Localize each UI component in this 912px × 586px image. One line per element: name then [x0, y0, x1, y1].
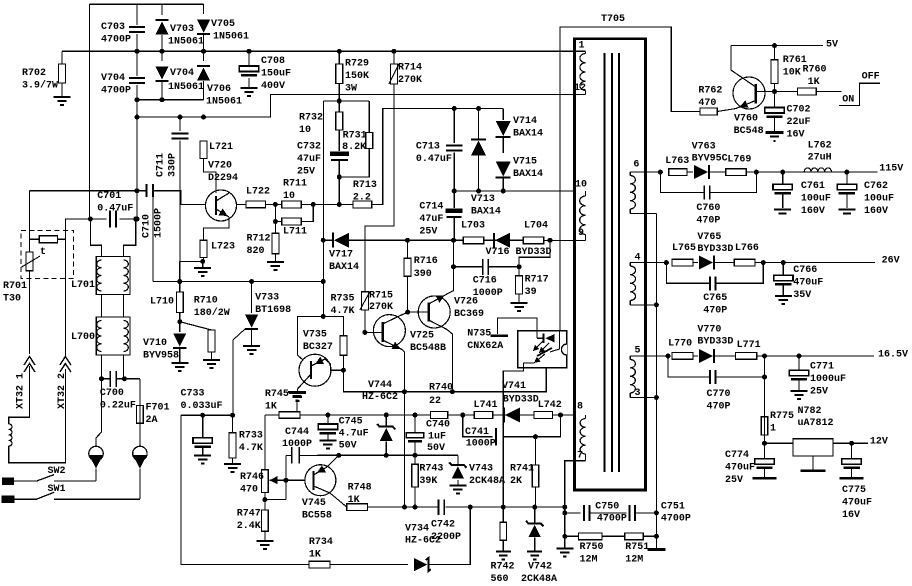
ground R747	[256, 541, 273, 549]
svg-text:8: 8	[577, 402, 583, 413]
svg-text:160V: 160V	[801, 206, 825, 217]
svg-text:27uH: 27uH	[808, 153, 832, 164]
wire 26V rail	[755, 262, 875, 264]
zener V743	[457, 455, 459, 464]
ground R733	[224, 464, 241, 472]
node C711 tap	[135, 115, 140, 120]
svg-text:1uF: 1uF	[428, 432, 446, 443]
svg-text:2CK48A: 2CK48A	[521, 574, 557, 585]
svg-text:BYV958: BYV958	[143, 351, 179, 362]
resistor R745	[279, 412, 300, 419]
svg-text:3W: 3W	[345, 84, 357, 95]
capacitor C733	[202, 415, 204, 438]
svg-text:V720: V720	[208, 161, 232, 172]
wire top bus	[90, 3, 204, 5]
svg-text:BYV95C: BYV95C	[692, 154, 728, 165]
wire V745 base	[286, 479, 305, 481]
zener V734	[414, 558, 427, 571]
capacitor C710	[137, 190, 146, 192]
svg-text:470P: 470P	[707, 402, 731, 413]
capacitor C775	[851, 443, 853, 458]
svg-text:820: 820	[247, 246, 265, 257]
svg-text:470uF: 470uF	[842, 498, 872, 509]
svg-text:1: 1	[770, 424, 776, 435]
svg-text:C742: C742	[431, 520, 455, 531]
svg-text:C745: C745	[339, 417, 363, 428]
resistor R775	[764, 356, 766, 417]
inductor L763	[669, 169, 687, 176]
svg-text:V717: V717	[329, 250, 353, 261]
capacitor C703	[136, 4, 138, 25]
svg-text:0.22uF: 0.22uF	[100, 401, 136, 412]
wire rail x=137 lower	[136, 100, 138, 219]
svg-text:L762: L762	[808, 141, 832, 152]
capacitor C761	[782, 172, 784, 184]
resistor R734	[309, 561, 330, 568]
svg-text:C760: C760	[696, 203, 720, 214]
wire 5V rail	[731, 45, 823, 47]
svg-text:8.2K: 8.2K	[342, 142, 366, 153]
svg-text:0.033uF: 0.033uF	[181, 401, 223, 412]
inductor L769	[726, 169, 747, 176]
svg-text:C741: C741	[465, 427, 489, 438]
optocoupler N735 box	[518, 331, 567, 368]
svg-text:V741: V741	[502, 381, 526, 392]
svg-text:C700: C700	[100, 388, 124, 399]
svg-text:1N5061: 1N5061	[168, 37, 204, 48]
svg-text:T30: T30	[3, 294, 21, 305]
diode V713	[478, 109, 480, 141]
svg-text:2CK48A: 2CK48A	[469, 476, 505, 487]
svg-text:4700P: 4700P	[101, 86, 131, 97]
resistor R750	[565, 535, 579, 537]
capacitor C716	[483, 259, 489, 275]
node pin4	[664, 260, 669, 265]
inductor L710	[179, 261, 181, 292]
svg-text:C703: C703	[101, 22, 125, 33]
svg-text:47uF: 47uF	[297, 154, 321, 165]
svg-text:R746: R746	[240, 472, 264, 483]
optocoupler N735 light arrows	[533, 341, 543, 351]
ground R717	[511, 303, 528, 311]
wire R714 to R715	[365, 84, 394, 292]
svg-text:1: 1	[579, 41, 585, 52]
wire V725 base	[365, 331, 383, 333]
transformer L701	[96, 257, 130, 295]
ground C774	[753, 477, 777, 480]
transistor V760	[733, 77, 765, 109]
svg-text:16.5V: 16.5V	[878, 350, 908, 361]
svg-text:560: 560	[491, 574, 509, 585]
svg-text:T705: T705	[601, 14, 625, 25]
thyristor V733	[251, 282, 253, 314]
svg-text:V716 BYD33D: V716 BYD33D	[486, 247, 552, 258]
svg-text:V760: V760	[734, 114, 758, 125]
svg-text:12V: 12V	[870, 437, 888, 448]
wire V760 base node	[756, 91, 798, 93]
svg-text:150K: 150K	[345, 71, 369, 82]
svg-text:1000uF: 1000uF	[810, 374, 846, 385]
svg-text:2.2: 2.2	[353, 193, 371, 204]
wire C701 to L701 left	[90, 219, 101, 258]
svg-text:12: 12	[574, 83, 586, 94]
svg-text:C740: C740	[426, 420, 450, 431]
svg-text:BT1698: BT1698	[255, 305, 291, 316]
capacitor C741	[463, 415, 493, 437]
diode V705	[203, 4, 205, 14]
svg-text:BYD33D: BYD33D	[697, 244, 733, 255]
wire emitter rail y=391.7	[343, 368, 546, 392]
svg-text:uA7812: uA7812	[798, 418, 834, 429]
capacitor C745	[327, 415, 329, 424]
wire V725 emitter down	[402, 350, 405, 392]
svg-text:25V: 25V	[810, 387, 828, 398]
svg-text:R751: R751	[625, 542, 649, 553]
svg-text:160V: 160V	[864, 206, 888, 217]
transformer L700	[96, 317, 130, 355]
capacitor C708	[247, 49, 252, 54]
capacitor C740	[414, 415, 416, 433]
diode V716	[495, 233, 510, 248]
svg-text:50V: 50V	[427, 443, 445, 454]
ground pin7	[564, 536, 566, 547]
capacitor C774	[764, 443, 766, 458]
svg-text:470P: 470P	[703, 306, 727, 317]
wire B+ bus y=51.3	[62, 50, 586, 52]
svg-text:V743: V743	[469, 464, 493, 475]
svg-text:L723: L723	[211, 242, 235, 253]
zener V744	[385, 415, 387, 427]
svg-text:C766: C766	[793, 265, 817, 276]
inductor L741	[474, 412, 493, 419]
wire N735 emitter to R742 node	[503, 368, 523, 507]
chassis bar secondary	[655, 536, 657, 548]
resistor R731	[368, 101, 370, 133]
wire 115V rail	[746, 171, 877, 173]
wire 12V out	[833, 442, 868, 444]
diode V715	[496, 162, 511, 177]
resistor R748	[347, 504, 368, 511]
wire V735 base	[297, 316, 323, 360]
diode V717	[334, 233, 349, 248]
wire V726 base	[408, 311, 429, 313]
svg-text:ON: ON	[842, 95, 854, 106]
ground L723	[194, 268, 211, 276]
resistor R729	[338, 51, 340, 64]
svg-text:C751: C751	[661, 502, 685, 513]
svg-text:BC548: BC548	[734, 126, 764, 137]
svg-text:CNX62A: CNX62A	[467, 341, 503, 352]
wire V720 base	[153, 191, 206, 205]
svg-text:R741: R741	[510, 464, 534, 475]
node pin6	[658, 170, 663, 175]
svg-text:1N5061: 1N5061	[213, 32, 249, 43]
ground V743	[449, 485, 466, 493]
svg-text:L741: L741	[474, 400, 498, 411]
svg-text:L742: L742	[538, 400, 562, 411]
svg-text:R762: R762	[698, 86, 722, 97]
transformer T705 body	[575, 39, 646, 490]
svg-text:V713: V713	[471, 194, 495, 205]
svg-text:BAX14: BAX14	[329, 262, 359, 273]
svg-text:3: 3	[635, 388, 641, 399]
svg-text:270K: 270K	[398, 75, 422, 86]
resistor R715	[361, 292, 368, 310]
svg-text:BYD33D: BYD33D	[697, 337, 733, 348]
wire y=204.4 row	[313, 203, 353, 205]
svg-text:50V: 50V	[339, 441, 357, 452]
capacitor C701	[90, 218, 106, 220]
resistor R712	[273, 219, 278, 224]
inductor L762	[804, 168, 831, 172]
ground C745	[319, 441, 336, 449]
inductor L721	[200, 141, 207, 159]
diode V763	[687, 171, 693, 173]
svg-text:16V: 16V	[842, 510, 860, 521]
wire to arrestors	[96, 379, 102, 446]
svg-text:SW2: SW2	[48, 466, 66, 477]
wire pin7 out	[565, 461, 586, 543]
wire V735 emitter to R735	[325, 359, 343, 370]
svg-text:C771: C771	[810, 362, 834, 373]
resistor R732	[338, 101, 340, 112]
wire AC rail x=90	[89, 4, 91, 219]
wire V717 bus y=240.2	[323, 239, 334, 241]
svg-text:10: 10	[575, 180, 587, 191]
transistor V745	[305, 465, 336, 496]
svg-text:BC548B: BC548B	[410, 343, 446, 354]
resistor R760	[797, 88, 816, 95]
svg-text:R733: R733	[239, 431, 263, 442]
svg-text:L701: L701	[71, 280, 95, 291]
wire L701-L700	[101, 295, 103, 318]
svg-text:C750: C750	[595, 502, 619, 513]
wire V726 collector down	[447, 330, 452, 392]
ground C702	[766, 131, 784, 134]
resistor R751	[625, 533, 643, 540]
svg-text:R775: R775	[770, 411, 794, 422]
svg-text:R747: R747	[237, 509, 261, 520]
svg-text:5V: 5V	[826, 40, 838, 51]
svg-text:BC327: BC327	[303, 342, 333, 353]
svg-text:22uF: 22uF	[787, 117, 811, 128]
capacitor C765 bypass	[666, 263, 709, 284]
resistor R702	[61, 51, 63, 64]
svg-text:BC558: BC558	[302, 511, 332, 522]
svg-text:D2294: D2294	[208, 173, 238, 184]
svg-text:L721: L721	[209, 142, 233, 153]
svg-text:0.47uF: 0.47uF	[416, 154, 452, 165]
svg-text:R729: R729	[345, 59, 369, 70]
diode V703	[161, 4, 163, 15]
wire C716 branch	[519, 240, 550, 266]
svg-text:R742: R742	[491, 562, 515, 573]
svg-text:BAX14: BAX14	[471, 207, 501, 218]
wire V725 emitter leg down	[404, 392, 406, 507]
resistor R761	[774, 46, 776, 60]
winding pins 1-12	[585, 51, 587, 53]
capacitor C771	[798, 356, 800, 370]
wire y=455.3 row	[339, 454, 458, 456]
svg-text:V715: V715	[513, 157, 537, 168]
switch SW1	[2, 496, 15, 504]
resistor R741	[535, 437, 537, 465]
svg-text:25V: 25V	[725, 475, 743, 486]
wire pin7 node	[562, 505, 567, 510]
transistor V726	[418, 296, 450, 328]
svg-text:L763: L763	[665, 156, 689, 167]
svg-text:25V: 25V	[419, 227, 437, 238]
svg-text:L711: L711	[283, 227, 307, 238]
svg-text:1K: 1K	[309, 550, 321, 561]
svg-text:4700P: 4700P	[101, 35, 131, 46]
ground R710	[203, 360, 220, 368]
capacitor C770 bypass	[668, 356, 709, 377]
capacitor C711	[179, 117, 181, 131]
svg-text:L703: L703	[461, 221, 485, 232]
capacitor C766	[782, 263, 784, 276]
wire snubber rail y=281.5	[153, 281, 323, 283]
svg-text:V734: V734	[405, 524, 429, 535]
svg-text:R750: R750	[580, 542, 604, 553]
arrestor left	[89, 446, 103, 460]
svg-text:4.7K: 4.7K	[239, 443, 263, 454]
optocoupler N735 phototransistor	[537, 348, 552, 356]
svg-text:2.4K: 2.4K	[237, 521, 261, 532]
arrestor right	[133, 446, 147, 460]
ground C771	[791, 391, 808, 399]
svg-text:L766: L766	[735, 243, 759, 254]
svg-text:L710: L710	[150, 297, 174, 308]
svg-text:V710: V710	[143, 338, 167, 349]
svg-text:t: t	[40, 247, 46, 258]
capacitor C760 bypass	[660, 172, 703, 192]
svg-text:100uF: 100uF	[864, 194, 894, 205]
svg-text:100uF: 100uF	[801, 194, 831, 205]
svg-text:4.7K: 4.7K	[331, 306, 355, 317]
svg-text:1N5061: 1N5061	[168, 82, 204, 93]
wire V745 collector	[330, 493, 347, 507]
svg-text:470uF: 470uF	[793, 278, 823, 289]
svg-text:V770: V770	[697, 325, 721, 336]
svg-text:1K: 1K	[265, 402, 277, 413]
svg-text:C702: C702	[787, 105, 811, 116]
wire bottom bus	[181, 415, 309, 564]
wire V745 emitter	[327, 455, 339, 467]
wire C701 row	[65, 218, 90, 220]
wire pin10 row y=191	[454, 190, 574, 192]
winding pins 5-3	[629, 356, 631, 360]
svg-text:BAX14: BAX14	[513, 129, 543, 140]
wire V735 collector to gnd	[297, 383, 303, 393]
resistor R733	[232, 415, 234, 433]
svg-text:R710: R710	[194, 296, 218, 307]
wire C701 to L701 right	[124, 219, 136, 258]
svg-text:OFF: OFF	[862, 72, 880, 83]
capacitor C750	[565, 512, 581, 514]
ground V733	[243, 346, 260, 354]
svg-text:R702: R702	[22, 68, 46, 79]
svg-text:R711: R711	[283, 179, 307, 190]
resistor R742	[502, 507, 504, 522]
svg-text:C762: C762	[864, 181, 888, 192]
svg-text:F701: F701	[146, 403, 170, 414]
connector X732 1	[24, 357, 35, 373]
inductor L722	[237, 203, 247, 205]
inductor L766	[734, 259, 755, 266]
zener V742	[534, 507, 536, 524]
inductor L770	[672, 353, 693, 360]
svg-text:1N5061: 1N5061	[206, 97, 242, 108]
svg-text:C711: C711	[156, 153, 167, 177]
resistor R710	[180, 322, 212, 330]
svg-text:7: 7	[577, 451, 583, 462]
ground R742	[496, 552, 511, 560]
svg-text:V705: V705	[211, 19, 235, 30]
ground C761	[774, 208, 791, 210]
inductor L711	[275, 204, 281, 221]
svg-text:12M: 12M	[625, 555, 643, 566]
capacitor C713	[453, 109, 455, 144]
wire L700 down	[101, 355, 103, 379]
svg-text:C775: C775	[842, 485, 866, 496]
transformer T705 core	[604, 53, 619, 472]
resistor R701 PTC	[30, 238, 40, 240]
wire N735 anode lead	[497, 318, 537, 338]
svg-text:470: 470	[240, 485, 258, 496]
svg-text:C714: C714	[419, 202, 443, 213]
potentiometer R746	[262, 470, 269, 493]
node R716 top	[405, 238, 410, 243]
svg-text:V763: V763	[692, 142, 716, 153]
inductor L765	[672, 259, 693, 266]
wire R732 net top	[324, 100, 370, 102]
node C714 chain	[451, 238, 456, 243]
wire V733 gate to R733	[232, 343, 234, 415]
svg-text:1000P: 1000P	[282, 439, 312, 450]
svg-text:22: 22	[429, 396, 441, 407]
wire R762 to V760 emitter	[717, 109, 736, 112]
svg-text:4.7uF: 4.7uF	[339, 429, 369, 440]
wire R716 to base node	[406, 276, 408, 312]
switch ON/OFF	[839, 83, 880, 105]
svg-text:R716: R716	[414, 256, 438, 267]
svg-text:25V: 25V	[297, 167, 315, 178]
svg-text:R740: R740	[429, 383, 453, 394]
wire R746 wiper	[285, 456, 287, 500]
wire left rail x=323.5	[323, 101, 325, 316]
svg-text:180/2W: 180/2W	[194, 307, 230, 319]
transistor V735	[299, 354, 331, 386]
wire bridge mid bus y=99.8	[137, 99, 204, 101]
inductor L771	[736, 353, 757, 360]
wire C733 row	[181, 414, 233, 416]
node pin5	[666, 353, 671, 358]
svg-text:HZ-6C2: HZ-6C2	[362, 392, 398, 403]
wire standby loop over T705	[560, 27, 700, 331]
ground V710	[171, 363, 188, 371]
svg-text:C765: C765	[703, 293, 727, 304]
svg-text:270K: 270K	[369, 302, 393, 313]
wire R745 left leg	[264, 415, 266, 470]
ground R745	[288, 391, 306, 393]
svg-text:2A: 2A	[146, 415, 158, 426]
node L710 out	[177, 319, 182, 324]
diode V765	[693, 262, 698, 264]
svg-text:4700P: 4700P	[661, 514, 691, 525]
ground R712	[267, 262, 284, 270]
diode V714	[502, 109, 504, 121]
